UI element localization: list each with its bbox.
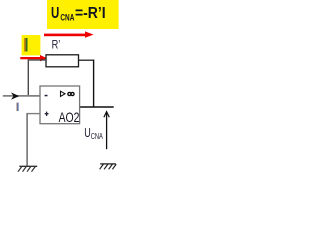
svg-text:UCNA: UCNA	[84, 127, 103, 142]
svg-text:U: U	[51, 5, 59, 22]
svg-text:AO2: AO2	[59, 110, 80, 126]
svg-text:=-R’I: =-R’I	[75, 6, 106, 23]
svg-text:CNA: CNA	[60, 12, 74, 23]
svg-text:R’: R’	[52, 40, 61, 52]
